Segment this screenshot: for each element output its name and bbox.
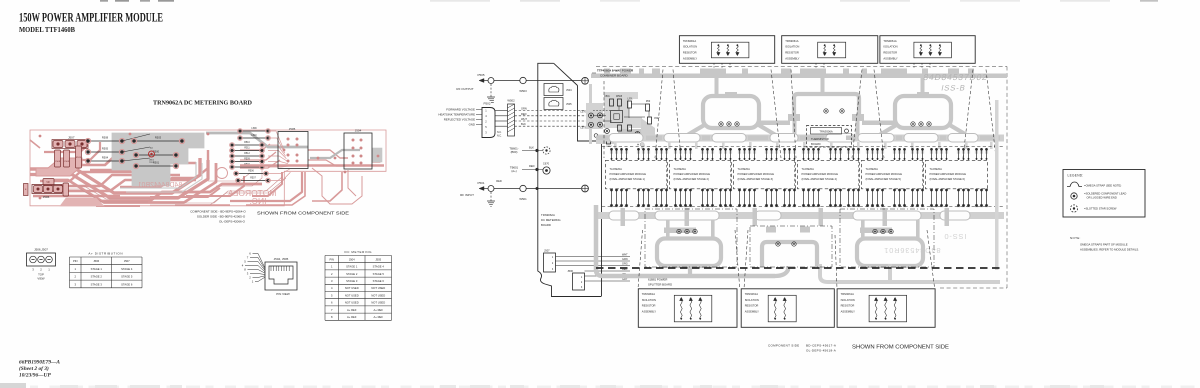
svg-text:BOARD: BOARD bbox=[541, 223, 551, 227]
svg-text:ISOLATION: ISOLATION bbox=[883, 45, 897, 49]
scan artifact bottom edge bbox=[0, 383, 1195, 388]
svg-text:W502: W502 bbox=[507, 99, 515, 103]
svg-text:ISOLATION: ISOLATION bbox=[745, 298, 759, 302]
dash-dot module outline lower right bbox=[840, 209, 934, 267]
svg-text:ISOLATION: ISOLATION bbox=[683, 45, 697, 49]
combiner loop stage1/2 bbox=[703, 96, 759, 128]
solder pad C573 bbox=[580, 122, 593, 129]
splitter bus heavy dashed bbox=[596, 267, 1002, 269]
white slot row lower bbox=[609, 211, 970, 220]
svg-text:PIN: PIN bbox=[330, 257, 335, 261]
board top edge dashed bbox=[596, 66, 1007, 68]
plug P505 bbox=[477, 73, 494, 84]
svg-text:RF OUTPUT: RF OUTPUT bbox=[456, 87, 473, 91]
svg-text:RESISTOR: RESISTOR bbox=[745, 304, 759, 308]
connector J507 pads bbox=[52, 140, 88, 149]
gray strip behind lower slots bbox=[598, 212, 1004, 219]
svg-text:R508: R508 bbox=[102, 135, 109, 139]
svg-text:P505: P505 bbox=[477, 73, 484, 77]
transformer T501 square bbox=[611, 111, 623, 123]
capacitor C527 bbox=[648, 117, 661, 124]
inductor/resistor L509 bbox=[238, 128, 271, 133]
svg-text:A+ DISTRIBUTION: A+ DISTRIBUTION bbox=[88, 252, 123, 256]
splitter board label bbox=[648, 278, 672, 287]
svg-text:RED: RED bbox=[529, 164, 535, 168]
svg-text:VIEW: VIEW bbox=[37, 277, 45, 281]
loop3 top pad bbox=[917, 92, 929, 98]
svg-text:84D84536R01: 84D84536R01 bbox=[883, 246, 940, 255]
svg-text:MODEL TTF1460B: MODEL TTF1460B bbox=[19, 25, 75, 34]
inductor L500 bbox=[616, 96, 623, 106]
solder pad small bbox=[594, 134, 598, 138]
svg-text:POWER AMPLIFIER MODULE: POWER AMPLIFIER MODULE bbox=[610, 172, 647, 176]
svg-text:=SLOTTED STAR SCREW: =SLOTTED STAR SCREW bbox=[1084, 207, 1117, 211]
svg-text:LEGEND:: LEGEND: bbox=[1068, 174, 1084, 178]
svg-text:ASSEMBLY: ASSEMBLY bbox=[841, 309, 855, 313]
svg-text:STAGE 3: STAGE 3 bbox=[346, 279, 358, 283]
svg-text:RESISTOR: RESISTOR bbox=[841, 304, 855, 308]
svg-text:R506: R506 bbox=[248, 171, 254, 173]
resistor R504 bbox=[85, 155, 124, 163]
partition dashes upper bbox=[604, 70, 996, 159]
sheet number footer bbox=[19, 360, 60, 379]
loop1 top pad bbox=[725, 92, 737, 98]
svg-text:HEATSINK TEMPERATURE: HEATSINK TEMPERATURE bbox=[438, 113, 475, 117]
pcb gray patch right bbox=[372, 148, 382, 162]
svg-text:J504: J504 bbox=[349, 257, 355, 261]
terminal TB601 A+ bbox=[510, 162, 550, 175]
gray A+ bus bar bbox=[591, 74, 1007, 79]
svg-text:ASSEMBLY: ASSEMBLY bbox=[642, 309, 656, 313]
svg-text:WHT: WHT bbox=[622, 254, 628, 257]
star screws lower loop3 bbox=[873, 229, 893, 233]
power amplifier module stage 3 bbox=[734, 160, 796, 189]
copyright circle bbox=[217, 168, 228, 179]
svg-text:J505: J505 bbox=[566, 102, 572, 106]
feedthrough pad RF input bbox=[582, 185, 589, 192]
svg-text:R50: R50 bbox=[646, 101, 651, 103]
P502 signal labels bbox=[438, 108, 502, 138]
svg-text:REFLECTED VOLTAGE: REFLECTED VOLTAGE bbox=[444, 118, 475, 122]
svg-text:TLF6920A: TLF6920A bbox=[738, 167, 751, 171]
resistor R501 bbox=[133, 160, 178, 168]
svg-text:TLF6920A: TLF6920A bbox=[674, 167, 687, 171]
wires P502 to W502 bbox=[495, 111, 508, 127]
svg-text:ASSEMBLY: ASSEMBLY bbox=[683, 56, 697, 60]
svg-text:RED: RED bbox=[521, 112, 527, 116]
svg-text:ISOLATION: ISOLATION bbox=[785, 45, 799, 49]
svg-text:THERMISTOR: THERMISTOR bbox=[811, 137, 829, 141]
star screw row loop2 bbox=[824, 109, 844, 113]
svg-text:(A+): (A+) bbox=[511, 169, 516, 173]
svg-text:PIN VIEW: PIN VIEW bbox=[276, 292, 290, 296]
star screws lower loop1 bbox=[677, 229, 697, 233]
cable marker W501 bbox=[519, 185, 527, 201]
svg-text:R504: R504 bbox=[102, 155, 109, 159]
svg-text:ISS-0: ISS-0 bbox=[944, 232, 967, 241]
svg-text:=SOLDERED COMPONENT LEAD: =SOLDERED COMPONENT LEAD bbox=[1084, 192, 1126, 196]
svg-text:STAGE 2: STAGE 2 bbox=[346, 272, 358, 276]
main board left edge bbox=[578, 86, 602, 297]
divider loop center bbox=[762, 227, 817, 268]
svg-text:ASSEMBLIES. REFER TO MODULE DE: ASSEMBLIES. REFER TO MODULE DETAILS. bbox=[1080, 247, 1139, 251]
svg-text:P501: P501 bbox=[477, 181, 484, 185]
partition dashes lower bbox=[638, 230, 935, 289]
svg-text:(Sheet 2 of 3): (Sheet 2 of 3) bbox=[19, 365, 49, 372]
connector P502 bbox=[482, 102, 495, 138]
svg-text:J506: J506 bbox=[93, 259, 99, 263]
internal dashed horizontal lower bbox=[602, 206, 1005, 208]
inductor L502 bbox=[627, 99, 633, 109]
svg-text:J504: J504 bbox=[566, 88, 572, 92]
pcb gray ground pour center bbox=[112, 133, 204, 186]
power amplifier module stage 4 bbox=[798, 160, 860, 189]
svg-text:POWER AMPLIFIER MODULE: POWER AMPLIFIER MODULE bbox=[738, 172, 775, 176]
svg-text:COMBINER BOARD: COMBINER BOARD bbox=[600, 74, 629, 78]
gray input riser bbox=[589, 84, 592, 144]
connector J507 edge bbox=[544, 249, 556, 273]
connector J506 edge bbox=[567, 269, 584, 290]
svg-text:BOARD: BOARD bbox=[811, 142, 821, 146]
divider loop stage56 bbox=[857, 239, 923, 267]
component L507 bbox=[628, 125, 634, 136]
pcb gray trace to J505 bbox=[206, 133, 308, 147]
pcb pink nested arc 1 bbox=[30, 158, 200, 193]
svg-text:OR LUGGED WIRE END: OR LUGGED WIRE END bbox=[1087, 196, 1117, 200]
svg-text:STAGE 6: STAGE 6 bbox=[373, 279, 385, 283]
metering board edge diagonal bbox=[554, 63, 578, 85]
metering board name on edge bbox=[541, 213, 561, 227]
connector J504 bbox=[344, 129, 372, 170]
connector J506 J507 top view bbox=[27, 248, 56, 281]
power amplifier module stage 1 bbox=[606, 160, 668, 189]
resistor R505 bbox=[85, 146, 124, 154]
board number 84D84537D02 bbox=[922, 72, 988, 82]
gray bus stubs bbox=[604, 69, 974, 74]
svg-text:C527: C527 bbox=[654, 118, 660, 120]
svg-text:J504, J505: J504, J505 bbox=[274, 257, 289, 261]
svg-text:ORG: ORG bbox=[622, 263, 628, 266]
svg-text:N.C.: N.C. bbox=[497, 135, 502, 138]
svg-text:C573: C573 bbox=[580, 127, 586, 130]
P502 lead lines bbox=[476, 110, 482, 125]
svg-text:STAGE 1: STAGE 1 bbox=[91, 267, 103, 271]
module pin row upper bbox=[610, 148, 988, 160]
svg-text:RESISTOR: RESISTOR bbox=[642, 304, 656, 308]
svg-text:A+ REF: A+ REF bbox=[374, 315, 384, 319]
svg-text:NOT USED: NOT USED bbox=[345, 293, 359, 297]
gray riser stubs below slots bbox=[614, 142, 993, 149]
svg-text:R503: R503 bbox=[155, 135, 162, 139]
pcb pink nested arc 3 bbox=[44, 163, 216, 203]
svg-text:SHOWN FROM COMPONENT SIDE: SHOWN FROM COMPONENT SIDE bbox=[257, 211, 349, 217]
power amplifier module stage 5 bbox=[862, 160, 924, 189]
svg-text:TRN9061A: TRN9061A bbox=[883, 39, 897, 43]
power amplifier module stage 6 bbox=[926, 160, 988, 189]
gray bus risers bbox=[715, 78, 925, 94]
svg-text:J506,J507: J506,J507 bbox=[34, 248, 48, 252]
DC metering table bbox=[325, 250, 392, 320]
connector symbol J505 edge bbox=[544, 98, 572, 110]
svg-text:NOT USED: NOT USED bbox=[371, 286, 385, 290]
svg-text:OL-DEPS-45618-A: OL-DEPS-45618-A bbox=[806, 349, 836, 353]
pcb thin red ring outlines bbox=[62, 186, 150, 199]
via pads scattered bbox=[39, 133, 380, 200]
inductor/resistor R507 bbox=[236, 178, 271, 183]
svg-text:VR: VR bbox=[46, 181, 50, 184]
loop3 wing right bbox=[948, 124, 988, 137]
legend box bbox=[1063, 170, 1145, 218]
svg-text:L509: L509 bbox=[251, 128, 257, 130]
svg-text:(FINAL AMPLIFIER STAGE 4): (FINAL AMPLIFIER STAGE 4) bbox=[802, 177, 837, 181]
resistor R500 bbox=[133, 149, 178, 157]
capacitor C509 vertical bbox=[64, 150, 70, 167]
component K517 bbox=[606, 138, 612, 148]
thermistor board TRN9306A bbox=[807, 126, 852, 148]
svg-text:STAGE 4: STAGE 4 bbox=[373, 265, 385, 269]
svg-text:GRN: GRN bbox=[622, 258, 628, 261]
divider loop stage12 bbox=[657, 239, 721, 267]
combiner loop stage3/4 center bbox=[788, 94, 864, 121]
isolation resistor assembly bottom 3 bbox=[837, 289, 935, 328]
lower loop3 screw bar bbox=[860, 228, 892, 234]
scan artifact top edge bbox=[100, 0, 1158, 2]
svg-text:J505: J505 bbox=[375, 257, 381, 261]
svg-text:61B81 POWER: 61B81 POWER bbox=[648, 278, 667, 282]
svg-text:LED1: LED1 bbox=[149, 160, 155, 162]
star screw row loop1 bbox=[719, 122, 739, 126]
svg-text:STAGE 6: STAGE 6 bbox=[121, 282, 133, 286]
svg-text:A+ REF: A+ REF bbox=[374, 308, 384, 312]
capacitor C572 bbox=[604, 96, 613, 106]
svg-text:TLF6920A: TLF6920A bbox=[930, 167, 943, 171]
inductor/resistor R512 bbox=[230, 153, 265, 158]
svg-text:TRN9061A: TRN9061A bbox=[785, 39, 799, 43]
resistor R513 vertical bbox=[76, 146, 82, 168]
solder pad C571 bbox=[598, 113, 603, 118]
dashed wires into board bbox=[515, 111, 590, 127]
loop1 wing right bbox=[757, 124, 796, 137]
svg-text:RESISTOR: RESISTOR bbox=[883, 51, 897, 55]
svg-text:BLK: BLK bbox=[529, 146, 534, 150]
svg-text:SHOWN FROM COMPONENT SIDE: SHOWN FROM COMPONENT SIDE bbox=[852, 345, 949, 351]
svg-text:J506: J506 bbox=[43, 195, 50, 199]
isolation resistor assembly bottom 2 bbox=[741, 289, 834, 328]
svg-text:STAGE 5: STAGE 5 bbox=[121, 275, 133, 279]
pink trace band under connectors bbox=[240, 164, 384, 166]
feedthrough pad P500 bbox=[582, 77, 589, 84]
svg-text:(FINAL AMPLIFIER STAGE 2): (FINAL AMPLIFIER STAGE 2) bbox=[674, 177, 709, 181]
svg-text:(FINAL AMPLIFIER STAGE 3): (FINAL AMPLIFIER STAGE 3) bbox=[738, 177, 773, 181]
dashed stub below P505 bbox=[490, 84, 492, 97]
pcb pink copper pour mid bbox=[60, 198, 104, 206]
wire P501 to W501 bbox=[494, 188, 520, 190]
svg-text:TLF6920A: TLF6920A bbox=[866, 167, 879, 171]
lower loop stubs to slots bbox=[666, 220, 920, 239]
solder pad L501 bbox=[605, 129, 610, 134]
ground symbol P501 bbox=[487, 201, 495, 206]
svg-text:SOLDER SIDE - BD-9EPS-42065-O: SOLDER SIDE - BD-9EPS-42065-O bbox=[197, 215, 246, 219]
svg-text:R512: R512 bbox=[244, 153, 250, 155]
svg-text:GRY: GRY bbox=[622, 278, 628, 281]
svg-text:COMPONENT SIDE: COMPONENT SIDE bbox=[768, 344, 799, 348]
svg-text:C508: C508 bbox=[55, 161, 61, 163]
inductor/resistor R510 bbox=[230, 142, 265, 147]
gray strip behind upper slots bbox=[598, 135, 1004, 142]
loop1 wing left bbox=[664, 124, 706, 137]
mirrored artwork number 84D84442B01 bbox=[138, 182, 183, 189]
battery terminal BT501 bbox=[24, 184, 29, 196]
inductor/resistor R511 bbox=[230, 148, 265, 153]
svg-text:INC.: INC. bbox=[250, 196, 267, 206]
svg-text:TRN9061A: TRN9061A bbox=[683, 39, 697, 43]
ground symbol P505 bbox=[487, 97, 495, 102]
resistor R517 bbox=[646, 101, 651, 111]
svg-text:RF INPUT: RF INPUT bbox=[460, 193, 474, 197]
svg-text:GRN: GRN bbox=[521, 107, 527, 111]
splitter gray feed band bbox=[596, 205, 1000, 282]
svg-text:R511: R511 bbox=[244, 148, 250, 150]
svg-text:C570: C570 bbox=[580, 111, 586, 114]
note text bbox=[1070, 236, 1139, 251]
svg-text:R507: R507 bbox=[250, 178, 256, 180]
wire W503 to board bbox=[526, 80, 581, 82]
inductor/resistor R506 bbox=[234, 171, 269, 176]
pcb pink nested arc 2 bbox=[30, 160, 208, 198]
internal dashed horizontal upper bbox=[602, 146, 1005, 148]
svg-text:TRN9061A: TRN9061A bbox=[745, 292, 759, 296]
resistor R508 bbox=[85, 135, 124, 143]
pink fanout to J505 bbox=[268, 131, 290, 181]
svg-text:C509: C509 bbox=[64, 161, 70, 163]
wire W501 into board bbox=[526, 188, 581, 190]
gray joiner bars upper slots bbox=[596, 136, 1000, 141]
svg-text:J506: J506 bbox=[567, 269, 573, 273]
svg-text:TRN9062A DC METERING BOARD: TRN9062A DC METERING BOARD bbox=[153, 100, 253, 107]
mirrored MOTOROLA text bbox=[226, 188, 277, 198]
isolation resistor assembly top 3 bbox=[880, 36, 975, 64]
connector J505 bbox=[278, 127, 308, 169]
svg-text:NOT USED: NOT USED bbox=[371, 293, 385, 297]
terminal TB601 B+ bbox=[509, 146, 550, 155]
pcb pink trace bundle lower left bbox=[30, 140, 380, 206]
svg-text:DC METERING: DC METERING bbox=[541, 218, 561, 222]
svg-text:WHT: WHT bbox=[521, 117, 527, 121]
svg-text:POWER AMPLIFIER MODULE: POWER AMPLIFIER MODULE bbox=[930, 172, 967, 176]
wire color labels GRN RED WHT BLK bbox=[521, 107, 527, 127]
board issue ISS-B bbox=[940, 84, 966, 93]
star screws lower loop2 bbox=[776, 242, 796, 246]
capacitor C508 vertical bbox=[55, 150, 61, 167]
svg-text:TRN9061A: TRN9061A bbox=[841, 292, 855, 296]
solder pad C570 bbox=[580, 111, 593, 119]
module gap separators bbox=[666, 160, 922, 189]
svg-text:(B60): (B60) bbox=[511, 150, 518, 154]
combiner board name bbox=[592, 69, 634, 78]
svg-text:NOT USED: NOT USED bbox=[345, 301, 359, 305]
J506 wires RED YEL GRY bbox=[585, 268, 631, 281]
inductor/resistor R502 bbox=[230, 164, 265, 169]
svg-text:TRN9062A: TRN9062A bbox=[541, 213, 555, 217]
svg-text:R510: R510 bbox=[244, 142, 250, 144]
svg-text:TLF6920A: TLF6920A bbox=[802, 167, 815, 171]
svg-text:J507: J507 bbox=[544, 249, 550, 253]
svg-text:J505: J505 bbox=[289, 127, 296, 131]
dash-dot module outline lower left bbox=[645, 209, 737, 267]
svg-text:NOTE:: NOTE: bbox=[1070, 236, 1081, 240]
svg-text:66PB1990E79—A: 66PB1990E79—A bbox=[19, 360, 60, 366]
input cluster wires bbox=[593, 104, 649, 121]
svg-text:L510: L510 bbox=[251, 135, 257, 137]
ferrite bead W502 bbox=[507, 99, 515, 137]
connector symbol J504 edge bbox=[544, 84, 572, 96]
capacitor C505 vertical small bbox=[63, 183, 69, 196]
svg-text:POWER AMPLIFIER MODULE: POWER AMPLIFIER MODULE bbox=[802, 172, 839, 176]
metering board edge outline bbox=[538, 63, 601, 296]
svg-text:DC METERING: DC METERING bbox=[344, 250, 372, 254]
potentiometer VR501 bbox=[43, 179, 54, 186]
svg-text:BLK: BLK bbox=[521, 122, 526, 126]
resistor R503 bbox=[131, 135, 184, 143]
svg-text:J504: J504 bbox=[355, 129, 362, 133]
svg-text:R509: R509 bbox=[244, 159, 250, 161]
svg-text:84D84537D02: 84D84537D02 bbox=[922, 72, 988, 82]
power amplifier module stage 2 bbox=[670, 160, 732, 189]
svg-text:J507: J507 bbox=[124, 259, 130, 263]
lower loop1 screw bar bbox=[664, 228, 696, 234]
svg-text:ASSEMBLY: ASSEMBLY bbox=[785, 56, 799, 60]
svg-text:FORWARD VOLTAGE: FORWARD VOLTAGE bbox=[446, 108, 475, 112]
thermistor sense pad 501 bbox=[635, 132, 645, 147]
svg-text:BD-CEPS-45617-A: BD-CEPS-45617-A bbox=[806, 344, 836, 348]
solder pad C574 bbox=[598, 122, 603, 127]
svg-text:ASSEMBLY: ASSEMBLY bbox=[883, 56, 897, 60]
pcb pink copper pour left bbox=[36, 158, 82, 176]
svg-text:A+ REF: A+ REF bbox=[347, 308, 357, 312]
svg-text:=OMEGA STRAP (SEE NOTE): =OMEGA STRAP (SEE NOTE) bbox=[1084, 184, 1121, 188]
wire R505 to pour bbox=[122, 147, 150, 152]
svg-text:TRN9061A: TRN9061A bbox=[642, 292, 656, 296]
svg-text:TTF4060A 6-WAY POWER: TTF4060A 6-WAY POWER bbox=[597, 69, 634, 73]
svg-text:ISS-B: ISS-B bbox=[940, 84, 966, 93]
input cluster gray pours bbox=[586, 92, 655, 144]
svg-text:W508: W508 bbox=[616, 96, 623, 98]
connector J506 pads bbox=[32, 185, 63, 200]
inductor/resistor R509 bbox=[230, 159, 265, 164]
svg-text:10/23/96—UP: 10/23/96—UP bbox=[19, 373, 51, 379]
star screw row loop3 bbox=[911, 122, 931, 126]
svg-text:STAGE 2: STAGE 2 bbox=[91, 275, 103, 279]
svg-text:STAGE 5: STAGE 5 bbox=[373, 272, 385, 276]
svg-text:L501: L501 bbox=[627, 99, 633, 101]
board bottom edge partial bbox=[940, 287, 1007, 289]
svg-text:W503: W503 bbox=[519, 89, 527, 93]
wire R508 to pour bbox=[122, 134, 150, 141]
metering board outline bbox=[30, 130, 386, 206]
svg-text:STAGE 3: STAGE 3 bbox=[91, 282, 103, 286]
J507 wires WHT GRN ORG bbox=[556, 254, 631, 266]
plug P501 bbox=[477, 179, 501, 192]
svg-text:150W POWER AMPLIFIER MODULE: 150W POWER AMPLIFIER MODULE bbox=[19, 11, 163, 25]
svg-text:NOT USED: NOT USED bbox=[345, 286, 359, 290]
loop interconnect bars bbox=[760, 119, 894, 136]
svg-text:84D84442B01: 84D84442B01 bbox=[138, 182, 183, 189]
component L50F bbox=[617, 125, 623, 136]
pcb pink thin outline traces bottom right bbox=[150, 170, 286, 205]
svg-text:TRN9306A: TRN9306A bbox=[819, 129, 833, 133]
loop3 wing left bbox=[858, 124, 898, 137]
svg-text:TLF6920A: TLF6920A bbox=[610, 167, 623, 171]
